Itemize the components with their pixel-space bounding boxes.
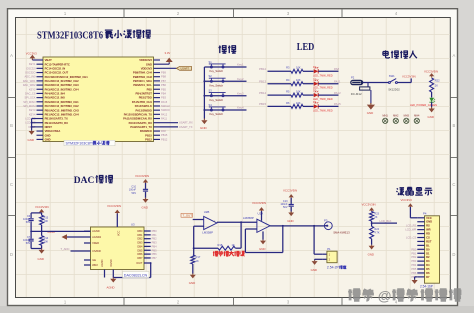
svg-text:DB2: DB2 xyxy=(137,237,143,241)
svg-text:GND: GND xyxy=(428,115,434,119)
svg-text:B: B xyxy=(453,123,456,128)
svg-text:PB1: PB1 xyxy=(152,233,158,237)
svg-text:U3: U3 xyxy=(131,223,135,227)
svg-text:BL: BL xyxy=(426,243,430,247)
svg-text:PB2: PB2 xyxy=(411,255,416,259)
svg-text:VDD3/3V3: VDD3/3V3 xyxy=(139,58,152,62)
svg-text:PB4: PB4 xyxy=(411,263,416,267)
svg-text:VCC3V3IN: VCC3V3IN xyxy=(283,189,297,193)
svg-text:LM358P: LM358P xyxy=(202,231,213,235)
svg-text:PB4: PB4 xyxy=(152,244,158,248)
svg-text:PA6/ADC12_IN6/TIM3_CH1: PA6/ADC12_IN6/TIM3_CH1 xyxy=(45,100,80,104)
svg-text:PA11/USBDM/CAN_RX: PA11/USBDM/CAN_RX xyxy=(123,117,152,121)
svg-text:PB6/I2C1_SCL: PB6/I2C1_SCL xyxy=(133,83,152,87)
svg-text:C: C xyxy=(10,182,13,187)
svg-text:S4: S4 xyxy=(209,103,213,107)
svg-text:PA12: PA12 xyxy=(334,91,341,95)
svg-text:R18: R18 xyxy=(218,243,223,247)
svg-text:P2: P2 xyxy=(351,76,355,80)
svg-text:KEY1: KEY1 xyxy=(29,62,36,66)
svg-text:PA12: PA12 xyxy=(161,112,168,116)
svg-text:VCC: VCC xyxy=(117,231,120,236)
svg-text:D3: D3 xyxy=(313,89,317,93)
svg-text:P4: P4 xyxy=(423,212,427,216)
svg-text:S3: S3 xyxy=(209,89,213,93)
svg-text:PB3/JTDO: PB3/JTDO xyxy=(139,96,152,100)
svg-text:VCC3V3IN: VCC3V3IN xyxy=(424,69,438,73)
svg-text:R6: R6 xyxy=(286,101,290,105)
svg-text:VCC3V3IN: VCC3V3IN xyxy=(362,202,376,206)
svg-text:GND: GND xyxy=(368,252,374,256)
svg-text:PB11/USART3_RX: PB11/USART3_RX xyxy=(45,121,69,125)
svg-text:OSC32I: OSC32I xyxy=(26,66,36,70)
svg-text:GND: GND xyxy=(38,257,44,261)
svg-text:10K: 10K xyxy=(296,66,301,70)
svg-text:PB5: PB5 xyxy=(411,267,416,271)
svg-text:P1: P1 xyxy=(327,247,331,251)
svg-text:VBAT: VBAT xyxy=(45,58,52,62)
svg-text:10K: 10K xyxy=(44,220,49,223)
svg-text:PA8/MCO: PA8/MCO xyxy=(140,129,152,133)
svg-text:DAC_CS: DAC_CS xyxy=(25,91,36,95)
svg-text:GND: GND xyxy=(311,268,317,272)
svg-text:KEY4: KEY4 xyxy=(29,112,36,116)
svg-text:R5: R5 xyxy=(286,90,290,94)
svg-text:SWDIO: SWDIO xyxy=(161,108,170,112)
svg-text:DAC_WR2: DAC_WR2 xyxy=(23,83,36,87)
svg-text:RD: RD xyxy=(426,232,430,236)
svg-text:DB1: DB1 xyxy=(137,233,143,237)
svg-text:VCC3V3IN: VCC3V3IN xyxy=(35,205,49,209)
svg-text:AGND: AGND xyxy=(101,259,104,266)
svg-text:PB12: PB12 xyxy=(161,137,168,141)
svg-text:PB4: PB4 xyxy=(161,91,166,95)
svg-text:PB1: PB1 xyxy=(411,251,416,255)
svg-text:RS: RS xyxy=(426,224,430,228)
svg-text:DAC_WR1: DAC_WR1 xyxy=(23,79,36,83)
svg-text:AGND: AGND xyxy=(107,286,115,290)
svg-text:KEY3: KEY3 xyxy=(29,108,36,112)
svg-text:DAC0832LCN: DAC0832LCN xyxy=(124,273,148,277)
svg-text:SMA-KWE13: SMA-KWE13 xyxy=(333,231,350,235)
svg-text:PA2/ADC12_IN2/TIM2_CH3: PA2/ADC12_IN2/TIM2_CH3 xyxy=(45,83,80,87)
svg-text:U2B: U2B xyxy=(204,210,210,214)
svg-text:PB6: PB6 xyxy=(161,83,166,87)
svg-text:DB4: DB4 xyxy=(137,244,143,248)
svg-text:VCC3V3IN: VCC3V3IN xyxy=(107,204,121,208)
svg-text:PB0: PB0 xyxy=(152,229,158,233)
svg-text:MH3: MH3 xyxy=(404,115,410,118)
svg-text:PB8: PB8 xyxy=(161,75,166,79)
svg-text:PA0-WKUP/ADC12_IN0/TIM2_CH1: PA0-WKUP/ADC12_IN0/TIM2_CH1 xyxy=(45,75,89,79)
svg-text:PA13/SWDIO: PA13/SWDIO xyxy=(136,108,152,112)
svg-text:VDDA/VSSA: VDDA/VSSA xyxy=(45,129,61,133)
svg-text:R22: R22 xyxy=(435,79,440,83)
svg-text:PB3: PB3 xyxy=(152,241,158,245)
svg-text:10K: 10K xyxy=(44,240,49,243)
svg-text:PA12/USBDP/CAN_TX: PA12/USBDP/CAN_TX xyxy=(124,112,152,116)
svg-text:AGND2: AGND2 xyxy=(92,235,101,239)
svg-text:GND: GND xyxy=(45,138,51,142)
svg-text:PB10/USART3_TX: PB10/USART3_TX xyxy=(45,117,68,121)
svg-text:DC-M12: DC-M12 xyxy=(351,92,362,96)
svg-text:PB8/TIM4_CH3: PB8/TIM4_CH3 xyxy=(133,75,152,79)
svg-text:VCC3V3IN: VCC3V3IN xyxy=(135,174,149,178)
svg-text:GND: GND xyxy=(146,62,152,66)
svg-text:PB4/JNTRST: PB4/JNTRST xyxy=(135,92,152,96)
svg-text:STM32F103C8T6: STM32F103C8T6 xyxy=(37,29,103,41)
svg-text:LCD_CS: LCD_CS xyxy=(406,236,417,240)
svg-text:PB5: PB5 xyxy=(152,248,158,252)
svg-text:SWCLK: SWCLK xyxy=(161,104,170,108)
svg-text:PA8: PA8 xyxy=(334,67,340,71)
svg-text:PB0: PB0 xyxy=(411,247,416,251)
svg-text:D7: D7 xyxy=(426,275,430,279)
svg-text:D1: D1 xyxy=(426,251,430,255)
svg-text:ADC_IN0: ADC_IN0 xyxy=(25,75,37,79)
svg-text:1K: 1K xyxy=(196,259,199,263)
svg-text:D2: D2 xyxy=(313,77,317,81)
svg-text:PB5: PB5 xyxy=(147,87,153,91)
svg-text:Key4: Key4 xyxy=(237,106,244,110)
svg-text:PB9: PB9 xyxy=(161,71,166,75)
svg-text:PB15: PB15 xyxy=(161,133,168,137)
svg-text:Key1: Key1 xyxy=(237,63,244,67)
svg-text:VCC3V3: VCC3V3 xyxy=(26,51,37,55)
svg-text:PB3: PB3 xyxy=(411,259,416,263)
svg-text:LED: LED xyxy=(297,42,315,53)
svg-text:D1: D1 xyxy=(313,65,317,69)
svg-text:PB12: PB12 xyxy=(259,67,266,71)
svg-text:PB6: PB6 xyxy=(152,252,158,256)
svg-text:ILE: ILE xyxy=(92,258,96,262)
svg-text:50V: 50V xyxy=(26,221,31,224)
svg-text:LCD_BLK: LCD_BLK xyxy=(380,219,392,223)
svg-text:50V: 50V xyxy=(26,242,31,245)
svg-text:D2: D2 xyxy=(426,255,430,259)
svg-text:GND: GND xyxy=(142,206,148,210)
svg-text:PA15: PA15 xyxy=(161,100,168,104)
svg-text:LED_POWER_GREEN: LED_POWER_GREEN xyxy=(410,103,437,107)
svg-text:T_ADC: T_ADC xyxy=(60,247,69,251)
svg-text:@: @ xyxy=(378,287,392,303)
svg-text:Key3: Key3 xyxy=(237,91,244,95)
svg-text:VCC3V3IN: VCC3V3IN xyxy=(402,74,416,78)
svg-text:PA9/USART1_TX: PA9/USART1_TX xyxy=(130,125,152,129)
svg-text:DB0: DB0 xyxy=(137,229,143,233)
svg-text:PB14: PB14 xyxy=(259,91,266,95)
svg-text:PB2: PB2 xyxy=(152,237,158,241)
svg-text:B: B xyxy=(10,123,13,128)
svg-text:4.7K: 4.7K xyxy=(374,231,379,234)
svg-text:PB9/TIM4_CH4: PB9/TIM4_CH4 xyxy=(133,71,152,75)
svg-text:2.54-2P: 2.54-2P xyxy=(327,266,340,270)
svg-text:DAC: DAC xyxy=(74,175,95,186)
svg-text:10K: 10K xyxy=(296,78,301,82)
svg-text:A: A xyxy=(10,53,13,58)
svg-text:PA8: PA8 xyxy=(161,129,166,133)
svg-text:USART_RX: USART_RX xyxy=(179,121,193,125)
svg-text:S1: S1 xyxy=(209,60,213,64)
svg-text:GND: GND xyxy=(200,126,208,130)
svg-text:WR2: WR2 xyxy=(92,263,98,267)
svg-text:PB5: PB5 xyxy=(161,87,166,91)
svg-text:C: C xyxy=(452,182,455,187)
svg-text:GND: GND xyxy=(45,133,51,137)
svg-text:SK12D02: SK12D02 xyxy=(388,87,400,91)
svg-text:MH2: MH2 xyxy=(393,115,399,118)
svg-text:GND: GND xyxy=(287,219,293,223)
svg-text:NRST: NRST xyxy=(45,125,53,129)
svg-text:PA1/ADC12_IN1/TIM2_CH2: PA1/ADC12_IN1/TIM2_CH2 xyxy=(45,79,80,83)
svg-text:50V: 50V xyxy=(283,206,288,209)
svg-text:SPI_MISO: SPI_MISO xyxy=(23,100,35,104)
svg-text:1K: 1K xyxy=(232,243,235,247)
svg-text:Key_Switch: Key_Switch xyxy=(210,98,224,102)
svg-text:PA11: PA11 xyxy=(161,117,168,121)
svg-text:RST: RST xyxy=(426,239,432,243)
svg-text:PB3: PB3 xyxy=(161,96,166,100)
svg-text:PC15-OSC32_OUT: PC15-OSC32_OUT xyxy=(45,71,69,75)
svg-text:KEY2: KEY2 xyxy=(29,87,36,91)
svg-text:VDD/3V3: VDD/3V3 xyxy=(141,66,153,70)
svg-text:CS/WR: CS/WR xyxy=(92,249,101,253)
svg-text:R3: R3 xyxy=(286,66,290,70)
svg-text:IOUT: IOUT xyxy=(136,261,143,265)
svg-text:PA10/USART1_RX: PA10/USART1_RX xyxy=(129,121,152,125)
svg-text:D: D xyxy=(452,252,455,257)
svg-text:Key_Switch: Key_Switch xyxy=(210,112,224,116)
svg-text:S2: S2 xyxy=(209,74,213,78)
svg-text:PA7/ADC12_IN7/TIM3_CH2: PA7/ADC12_IN7/TIM3_CH2 xyxy=(45,104,80,108)
svg-text:LED_TMW_RED: LED_TMW_RED xyxy=(313,108,333,112)
svg-text:D4: D4 xyxy=(313,100,317,104)
svg-text:DB5: DB5 xyxy=(137,248,143,252)
svg-text:LCD_RS: LCD_RS xyxy=(406,224,417,228)
svg-text:PB12: PB12 xyxy=(145,138,152,142)
svg-text:PA11: PA11 xyxy=(334,80,341,84)
svg-text:SW1: SW1 xyxy=(389,74,395,78)
svg-text:D0: D0 xyxy=(426,247,430,251)
svg-text:PA4/ADC12_IN4: PA4/ADC12_IN4 xyxy=(45,92,66,96)
svg-text:A: A xyxy=(453,53,456,58)
svg-text:LCD_WR: LCD_WR xyxy=(405,228,416,232)
svg-text:PA15: PA15 xyxy=(334,102,341,106)
svg-text:D: D xyxy=(10,252,13,257)
svg-text:D4: D4 xyxy=(426,263,430,267)
svg-text:GND: GND xyxy=(189,281,195,285)
svg-text:D5: D5 xyxy=(426,267,430,271)
svg-text:XFER: XFER xyxy=(92,241,99,245)
svg-text:PC14-OSC32_IN: PC14-OSC32_IN xyxy=(45,66,66,70)
svg-text:SPI_SCK: SPI_SCK xyxy=(25,96,36,100)
svg-text:D6: D6 xyxy=(426,271,430,275)
svg-text:3.3V: 3.3V xyxy=(165,51,171,55)
svg-text:OSC32O: OSC32O xyxy=(25,71,36,75)
svg-text:LED_TMW_RED: LED_TMW_RED xyxy=(313,73,333,77)
svg-text:MH1: MH1 xyxy=(383,115,389,118)
svg-text:R17: R17 xyxy=(196,255,201,259)
svg-text:WR: WR xyxy=(426,228,431,232)
svg-text:2K: 2K xyxy=(435,84,438,88)
svg-text:DGND: DGND xyxy=(110,259,113,267)
svg-text:PA3/ADC12_IN3/TIM2_CH4: PA3/ADC12_IN3/TIM2_CH4 xyxy=(45,87,80,91)
svg-text:USART_TX: USART_TX xyxy=(179,125,193,129)
svg-text:PB0/ADC12_IN8/TIM3_CH3: PB0/ADC12_IN8/TIM3_CH3 xyxy=(45,108,80,112)
svg-text:PA15/JTDI_CH1: PA15/JTDI_CH1 xyxy=(132,100,152,104)
svg-text:USART: USART xyxy=(181,67,190,70)
svg-text:PB1/ADC12_IN9/TIM3_CH4: PB1/ADC12_IN9/TIM3_CH4 xyxy=(45,112,80,116)
svg-text:D3: D3 xyxy=(426,259,430,263)
svg-text:P3: P3 xyxy=(324,218,328,222)
svg-text:PB7: PB7 xyxy=(152,256,158,260)
svg-text:PB7/I2C1_SDA: PB7/I2C1_SDA xyxy=(133,79,152,83)
svg-text:PB13: PB13 xyxy=(259,80,266,84)
svg-text:PB6: PB6 xyxy=(411,271,416,275)
svg-text:Key_Switch: Key_Switch xyxy=(210,69,224,73)
svg-text:STM32F103C8T6: STM32F103C8T6 xyxy=(66,142,95,146)
svg-text:U2A: U2A xyxy=(258,212,264,216)
svg-text:SPI_MOSI: SPI_MOSI xyxy=(23,104,36,108)
svg-text:R4: R4 xyxy=(286,78,290,82)
svg-text:50V: 50V xyxy=(132,192,137,195)
svg-text:Key2: Key2 xyxy=(237,77,244,81)
svg-text:2K: 2K xyxy=(374,216,377,219)
svg-text:GND: GND xyxy=(259,247,265,251)
svg-text:PC13-TAMPER-RTC: PC13-TAMPER-RTC xyxy=(45,62,70,66)
svg-text:PB15: PB15 xyxy=(259,102,266,106)
svg-text:DB6: DB6 xyxy=(137,252,143,256)
svg-text:PB7: PB7 xyxy=(161,79,166,83)
svg-text:10K: 10K xyxy=(296,90,301,94)
svg-text:CS: CS xyxy=(426,236,430,240)
svg-text:VCC3V3: VCC3V3 xyxy=(401,198,413,202)
svg-text:DB7: DB7 xyxy=(137,256,143,260)
svg-text:2.54-16P: 2.54-16P xyxy=(420,285,433,289)
svg-text:VCC3V3IN: VCC3V3IN xyxy=(252,201,266,205)
svg-text:10K: 10K xyxy=(296,101,301,105)
svg-text:AGND: AGND xyxy=(92,229,100,233)
svg-text:GND: GND xyxy=(367,111,373,115)
svg-text:Key_Switch: Key_Switch xyxy=(210,84,224,88)
svg-text:LM358P: LM358P xyxy=(243,216,254,220)
svg-text:VCC: VCC xyxy=(426,216,432,220)
svg-text:PA5/ADC12_IN5: PA5/ADC12_IN5 xyxy=(45,96,66,100)
svg-text:PB15: PB15 xyxy=(145,133,152,137)
svg-text:GND: GND xyxy=(426,220,432,224)
svg-text:DB3: DB3 xyxy=(137,241,143,245)
svg-text:GND: GND xyxy=(28,138,34,142)
svg-text:MH4: MH4 xyxy=(414,115,420,118)
svg-text:PA14/SWCLK: PA14/SWCLK xyxy=(135,104,152,108)
